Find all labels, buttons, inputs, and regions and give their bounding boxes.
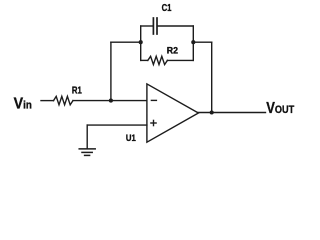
svg-text:Vin: Vin xyxy=(14,96,32,113)
wire output xyxy=(198,112,266,114)
junction dot right of RC network xyxy=(191,40,195,44)
op-amp U1 xyxy=(147,84,199,142)
wire R1 to op-amp inverting input xyxy=(73,100,147,102)
svg-text:R2: R2 xyxy=(167,45,178,56)
wire C1 branch top right xyxy=(158,25,194,27)
wire feedback right vertical to output xyxy=(211,42,213,112)
wire feedback top horizontal left xyxy=(111,41,141,43)
op-amp inverting pin minus sign xyxy=(151,99,156,101)
wire C1 branch right vertical xyxy=(192,26,194,42)
resistor R2 xyxy=(148,56,168,64)
wire R2 branch bottom right xyxy=(167,59,193,61)
svg-text:U1: U1 xyxy=(126,132,136,143)
svg-text:R1: R1 xyxy=(72,86,82,97)
wire C1 branch left vertical xyxy=(140,26,142,42)
junction output node dot xyxy=(210,110,214,114)
ground xyxy=(79,149,95,156)
wire feedback left vertical xyxy=(110,42,112,100)
junction input node dot xyxy=(109,99,113,103)
wire Vin to R1 xyxy=(41,100,54,102)
junction dot left of RC network xyxy=(139,40,143,44)
op-amp non-inverting pin plus sign xyxy=(151,120,156,125)
wire R2 branch bottom left xyxy=(141,59,148,61)
wire R2 branch left vertical xyxy=(140,42,142,60)
wire ground stem vertical xyxy=(86,125,88,148)
svg-text:VOUT: VOUT xyxy=(266,100,294,117)
wire non-inverting input horizontal xyxy=(87,124,147,126)
capacitor C1 xyxy=(153,18,157,34)
wire R2 branch right vertical xyxy=(192,42,194,60)
wire feedback top horizontal right xyxy=(193,41,211,43)
resistor R1 xyxy=(54,96,74,104)
svg-text:C1: C1 xyxy=(162,3,172,14)
wire C1 branch top left xyxy=(141,25,153,27)
